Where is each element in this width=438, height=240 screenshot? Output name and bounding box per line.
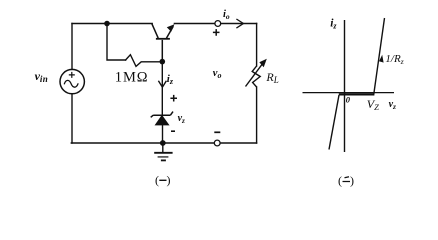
zener diode D1 <box>151 112 173 125</box>
transistor emitter arrowhead <box>167 24 175 32</box>
svg-text:): ) <box>350 174 354 188</box>
svg-text:(: ( <box>155 173 159 187</box>
node C resistor-base-zener <box>160 59 166 65</box>
curve forward line <box>329 95 339 150</box>
wire top rail left <box>72 23 152 25</box>
curve breakdown line <box>374 18 385 96</box>
svg-text:vz: vz <box>389 99 396 111</box>
node B bottom ground <box>160 140 166 146</box>
svg-text:0: 0 <box>346 95 351 105</box>
curve zero-current segment <box>339 93 374 95</box>
wire base feed <box>107 24 126 61</box>
svg-text:): ) <box>167 173 171 187</box>
svg-text:iz: iz <box>330 18 337 31</box>
svg-text:RL: RL <box>265 70 278 85</box>
svg-text:iz: iz <box>167 73 174 86</box>
label + top terminal <box>213 29 220 36</box>
label + v_z <box>170 95 177 102</box>
caption (b) <box>338 174 354 188</box>
svg-text:1/Rz: 1/Rz <box>385 53 403 66</box>
wire emitter rail <box>174 23 256 25</box>
wire zener to ground <box>162 124 164 143</box>
ground <box>154 143 172 160</box>
graph: axis i_z vertical <box>344 20 346 152</box>
terminal top output <box>215 21 221 27</box>
slope marker <box>379 55 384 63</box>
node A top <box>104 21 110 27</box>
svg-text:vin: vin <box>35 69 48 84</box>
svg-text:io: io <box>223 9 230 21</box>
arrow i_z <box>158 81 166 87</box>
label minus v_z <box>171 130 175 132</box>
wire i_z <box>161 62 163 114</box>
wire right branch <box>256 24 258 144</box>
terminal bottom output <box>214 140 220 146</box>
svg-text:1MΩ: 1MΩ <box>115 70 149 86</box>
arrow i_o <box>236 19 243 28</box>
svg-text:vo: vo <box>213 68 222 80</box>
arrowhead RL <box>259 59 267 67</box>
caption (a) <box>155 173 171 187</box>
resistor R1 zigzag <box>126 55 163 67</box>
label minus bottom terminal <box>214 131 220 133</box>
svg-text:(: ( <box>338 174 342 188</box>
wire left branch <box>71 24 73 144</box>
resistor RL variable <box>246 63 264 87</box>
wire bottom rail <box>71 142 256 144</box>
source Vin <box>60 69 84 93</box>
svg-text:VZ: VZ <box>367 97 379 112</box>
graph: axis v_z horizontal <box>303 92 395 94</box>
svg-text:vz: vz <box>178 113 185 125</box>
transistor Q1 <box>152 24 173 60</box>
